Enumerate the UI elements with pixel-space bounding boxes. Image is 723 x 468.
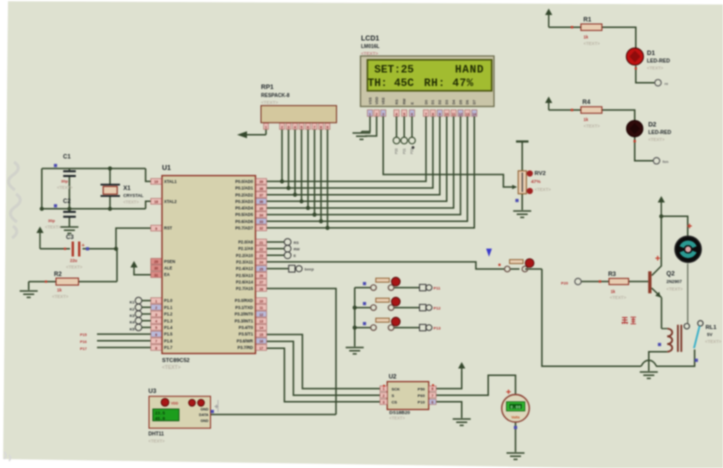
svg-text:22: 22 — [259, 247, 263, 251]
svg-text:VDD: VDD — [375, 97, 379, 105]
svg-text:Volts: Volts — [511, 415, 520, 419]
svg-text:<TEXT>: <TEXT> — [361, 51, 378, 56]
svg-text:10: 10 — [259, 299, 263, 303]
svg-text:1k: 1k — [57, 288, 62, 293]
svg-text:P2.2/A10: P2.2/A10 — [236, 253, 254, 258]
svg-text:23: 23 — [259, 254, 263, 258]
svg-text:P2.5/A13: P2.5/A13 — [236, 273, 254, 278]
svg-text:C3: C3 — [66, 235, 74, 241]
svg-text:3: 3 — [155, 313, 157, 317]
svg-text:P3.3/INT1: P3.3/INT1 — [235, 318, 254, 323]
svg-text:XTAL1: XTAL1 — [164, 179, 177, 184]
svg-text:GND: GND — [201, 419, 209, 423]
svg-text:P13: P13 — [434, 326, 442, 331]
svg-text:15: 15 — [259, 333, 263, 337]
svg-text:ALE: ALE — [164, 266, 172, 271]
svg-text:R2: R2 — [54, 272, 62, 278]
svg-text:<TEXT>: <TEXT> — [123, 200, 139, 205]
svg-text:P3.1/TXD: P3.1/TXD — [235, 305, 253, 310]
svg-text:P3.0/RXD: P3.0/RXD — [235, 298, 253, 303]
svg-text:2: 2 — [383, 394, 385, 398]
svg-text:LM016L: LM016L — [361, 44, 380, 50]
svg-text:0.00: 0.00 — [510, 405, 521, 410]
svg-text:32: 32 — [259, 227, 263, 231]
svg-text:<TEXT>: <TEXT> — [647, 66, 664, 71]
svg-text:2: 2 — [376, 112, 378, 116]
svg-text:TH: 45C: TH: 45C — [368, 78, 415, 90]
svg-text:K5: K5 — [130, 327, 135, 331]
svg-text:RST: RST — [164, 226, 173, 231]
svg-text:RW: RW — [294, 247, 301, 251]
svg-text:<TEXT>: <TEXT> — [584, 41, 601, 46]
svg-text:<TEXT>: <TEXT> — [52, 294, 69, 299]
svg-text:28: 28 — [259, 287, 263, 291]
svg-text:P0.4/AD4: P0.4/AD4 — [235, 206, 253, 211]
svg-text:<TEXT>: <TEXT> — [261, 100, 278, 105]
svg-text:4: 4 — [294, 125, 296, 129]
svg-text:P12: P12 — [434, 306, 442, 311]
svg-text:U2: U2 — [389, 374, 397, 381]
svg-text:8: 8 — [155, 346, 157, 350]
svg-text:RV2: RV2 — [535, 171, 546, 177]
svg-text:DHT11: DHT11 — [148, 432, 164, 438]
svg-text:29: 29 — [154, 260, 158, 264]
svg-text:D1: D1 — [647, 50, 656, 57]
svg-text:<TEXT>: <TEXT> — [584, 124, 601, 129]
svg-text:1: 1 — [155, 299, 157, 303]
svg-text:P2.3/A11: P2.3/A11 — [236, 260, 254, 265]
svg-text:7: 7 — [425, 112, 427, 116]
svg-text:2: 2 — [155, 306, 157, 310]
svg-text:13: 13 — [259, 320, 263, 324]
svg-text:XTAL2: XTAL2 — [164, 199, 177, 204]
svg-text:P15: P15 — [80, 333, 87, 337]
svg-text:P0.3/AD3: P0.3/AD3 — [235, 199, 253, 204]
svg-text:STC89C52: STC89C52 — [162, 358, 190, 364]
svg-text:D6: D6 — [466, 100, 470, 105]
svg-text:P1.4: P1.4 — [164, 325, 173, 330]
svg-text:HAND: HAND — [455, 65, 484, 77]
svg-text:2: 2 — [281, 125, 283, 129]
svg-text:P1.3: P1.3 — [164, 318, 173, 323]
svg-text:<TEXT>: <TEXT> — [705, 339, 722, 344]
svg-text:P17: P17 — [80, 347, 87, 351]
svg-text:RESPACK-8: RESPACK-8 — [261, 93, 290, 99]
svg-text:P0.2/AD2: P0.2/AD2 — [235, 192, 253, 197]
svg-text:R1: R1 — [583, 17, 591, 24]
svg-text:8: 8 — [320, 125, 322, 129]
svg-text:33: 33 — [259, 220, 263, 224]
svg-text:8: 8 — [432, 112, 434, 116]
svg-text:D2: D2 — [438, 100, 442, 105]
svg-text:P2.1/A9: P2.1/A9 — [238, 246, 254, 251]
svg-text:16: 16 — [259, 340, 263, 344]
svg-text:P0.1/AD1: P0.1/AD1 — [235, 186, 253, 191]
svg-text:<TEXT>: <TEXT> — [66, 265, 83, 270]
svg-text:EA: EA — [164, 272, 170, 277]
svg-text:5V: 5V — [707, 332, 712, 337]
svg-text:P1.5: P1.5 — [164, 332, 173, 337]
svg-text:P1.0: P1.0 — [164, 298, 173, 303]
svg-text:2N2907: 2N2907 — [666, 279, 682, 284]
svg-text:K1: K1 — [130, 301, 135, 305]
svg-text:R4: R4 — [582, 99, 590, 106]
svg-text:D5: D5 — [459, 100, 463, 105]
svg-text:P3.7/RD: P3.7/RD — [238, 345, 254, 350]
svg-text:24: 24 — [259, 261, 263, 265]
svg-text:beep: beep — [305, 267, 315, 272]
svg-text:P1.2: P1.2 — [164, 312, 173, 317]
svg-text:11: 11 — [259, 306, 263, 310]
svg-text:GND: GND — [201, 407, 209, 411]
svg-text:RW: RW — [403, 98, 407, 105]
svg-text:P21: P21 — [402, 148, 406, 154]
svg-text:PSEN: PSEN — [164, 259, 175, 264]
svg-text:D7: D7 — [473, 100, 477, 105]
svg-text:P3.4/T0: P3.4/T0 — [239, 325, 254, 330]
svg-text:30: 30 — [154, 267, 158, 271]
svg-text:25: 25 — [259, 267, 263, 271]
svg-text:<TEXT>: <TEXT> — [389, 415, 405, 420]
svg-text:P1.6: P1.6 — [164, 338, 173, 343]
svg-text:6: 6 — [411, 112, 413, 116]
svg-text:D4: D4 — [452, 100, 456, 105]
svg-text:CS: CS — [392, 400, 398, 405]
svg-text:P2.6/A14: P2.6/A14 — [236, 279, 254, 284]
svg-text:SCK: SCK — [392, 386, 401, 391]
svg-text:4: 4 — [155, 320, 157, 324]
svg-text:P3.6/WR: P3.6/WR — [237, 338, 253, 343]
svg-text:3: 3 — [288, 125, 290, 129]
svg-text:P50: P50 — [418, 386, 426, 391]
svg-text:P16: P16 — [80, 340, 87, 344]
svg-text:<TEXT>: <TEXT> — [648, 137, 665, 142]
svg-text:39: 39 — [259, 180, 263, 184]
svg-text:36: 36 — [259, 200, 263, 204]
svg-text:4: 4 — [396, 112, 398, 116]
svg-text:C1: C1 — [63, 155, 71, 161]
svg-text:RS: RS — [395, 99, 399, 105]
svg-text:LED-RED: LED-RED — [648, 130, 671, 136]
svg-text:LCD1: LCD1 — [361, 36, 379, 43]
svg-text:6: 6 — [432, 400, 434, 404]
svg-text:9: 9 — [155, 227, 157, 231]
svg-text:P2.4/A12: P2.4/A12 — [236, 266, 254, 271]
svg-text:12: 12 — [459, 112, 463, 116]
svg-text:P3.5/T1: P3.5/T1 — [239, 332, 254, 337]
svg-text:P20: P20 — [561, 281, 569, 286]
svg-text:34: 34 — [259, 213, 263, 217]
svg-text:RL1: RL1 — [706, 325, 718, 331]
svg-text:1k: 1k — [584, 117, 589, 122]
svg-text:7: 7 — [432, 394, 434, 398]
svg-text:12: 12 — [259, 313, 263, 317]
svg-text:D3: D3 — [445, 100, 449, 105]
svg-text:P11: P11 — [434, 286, 442, 291]
svg-text:P20: P20 — [395, 148, 399, 154]
svg-text:1: 1 — [383, 387, 385, 391]
svg-text:<TEXT>: <TEXT> — [535, 187, 552, 192]
svg-text:P0.0/AD0: P0.0/AD0 — [235, 179, 253, 184]
svg-text:5: 5 — [155, 326, 157, 330]
svg-text:10: 10 — [445, 112, 449, 116]
svg-text:17: 17 — [259, 346, 263, 350]
svg-text:30p: 30p — [61, 179, 68, 184]
svg-text:3: 3 — [383, 400, 385, 404]
svg-text:LED-RED: LED-RED — [647, 58, 670, 64]
svg-text:3: 3 — [382, 112, 384, 116]
svg-text:P2.0/A8: P2.0/A8 — [238, 240, 254, 245]
svg-text:R3: R3 — [608, 271, 616, 278]
svg-text:X1: X1 — [123, 186, 131, 192]
svg-text:<TEXT>: <TEXT> — [666, 287, 683, 292]
svg-text:9: 9 — [327, 125, 329, 129]
svg-text:<TEXT>: <TEXT> — [57, 185, 73, 190]
svg-text:CRYSTAL: CRYSTAL — [123, 193, 144, 198]
svg-text:K3: K3 — [130, 314, 135, 318]
svg-text:<TEXT>: <TEXT> — [45, 225, 61, 230]
svg-text:35: 35 — [259, 207, 263, 211]
svg-text:22u: 22u — [70, 258, 78, 263]
svg-text:11: 11 — [452, 112, 456, 116]
svg-text:38: 38 — [259, 187, 263, 191]
svg-text:7: 7 — [155, 340, 157, 344]
svg-text:1k: 1k — [584, 35, 589, 40]
svg-text:RH: 47%: RH: 47% — [424, 78, 474, 90]
svg-text:D1: D1 — [431, 100, 435, 105]
svg-text:S: S — [392, 393, 395, 398]
svg-text:SET:25: SET:25 — [374, 65, 414, 77]
svg-text:RS: RS — [294, 241, 300, 245]
svg-text:P22: P22 — [410, 148, 414, 154]
svg-text:<TEXT>: <TEXT> — [610, 295, 627, 300]
svg-text:19: 19 — [154, 180, 158, 184]
svg-text:RP1: RP1 — [261, 84, 274, 91]
svg-text:14: 14 — [472, 112, 476, 116]
svg-text:6: 6 — [155, 333, 157, 337]
svg-text:45.0: 45.0 — [155, 418, 166, 422]
svg-text:P60: P60 — [418, 393, 426, 398]
svg-text:VEE: VEE — [382, 97, 386, 105]
svg-text:1k: 1k — [611, 289, 616, 294]
svg-text:9: 9 — [439, 112, 441, 116]
svg-text:D0: D0 — [424, 100, 428, 105]
svg-text:7: 7 — [314, 125, 316, 129]
svg-text:8: 8 — [432, 387, 434, 391]
svg-text:27: 27 — [259, 281, 263, 285]
svg-text:6: 6 — [307, 125, 309, 129]
svg-text:26: 26 — [259, 274, 263, 278]
svg-text:Q2: Q2 — [666, 271, 675, 278]
svg-text:U3: U3 — [148, 388, 156, 395]
svg-text:<TEXT>: <TEXT> — [148, 439, 165, 444]
svg-text:P1.7: P1.7 — [164, 345, 173, 350]
svg-text:P0.6/AD6: P0.6/AD6 — [235, 219, 253, 224]
svg-text:VDD: VDD — [171, 402, 179, 406]
svg-text:<TEXT>: <TEXT> — [162, 365, 181, 371]
svg-text:37: 37 — [259, 193, 263, 197]
svg-text:14: 14 — [259, 326, 263, 330]
svg-text:13: 13 — [466, 112, 470, 116]
svg-text:1: 1 — [265, 125, 267, 129]
svg-text:C2: C2 — [63, 199, 71, 205]
svg-text:K2: K2 — [130, 307, 135, 311]
svg-text:P10: P10 — [418, 400, 426, 405]
svg-text:P0.5/AD5: P0.5/AD5 — [235, 212, 253, 217]
svg-text:18: 18 — [154, 200, 158, 204]
svg-text:D2: D2 — [648, 122, 657, 129]
svg-text:30p: 30p — [48, 218, 55, 223]
svg-text:DATA: DATA — [199, 413, 209, 417]
svg-text:21: 21 — [259, 241, 263, 245]
svg-text:fen: fen — [663, 159, 670, 164]
svg-text:P0.7/AD7: P0.7/AD7 — [235, 225, 253, 230]
svg-text:P1.1: P1.1 — [164, 305, 173, 310]
svg-text:23.5: 23.5 — [155, 412, 166, 416]
svg-text:5: 5 — [301, 125, 303, 129]
svg-text:1: 1 — [369, 112, 371, 116]
svg-text:5: 5 — [403, 112, 405, 116]
svg-text:P3.2/INT0: P3.2/INT0 — [235, 312, 254, 317]
svg-text:47%: 47% — [531, 179, 541, 185]
svg-text:31: 31 — [154, 273, 158, 277]
svg-text:U1: U1 — [162, 165, 171, 172]
svg-text:P2.7/A15: P2.7/A15 — [236, 286, 254, 291]
svg-text:VSS: VSS — [368, 97, 372, 105]
svg-text:+: + — [82, 243, 85, 249]
